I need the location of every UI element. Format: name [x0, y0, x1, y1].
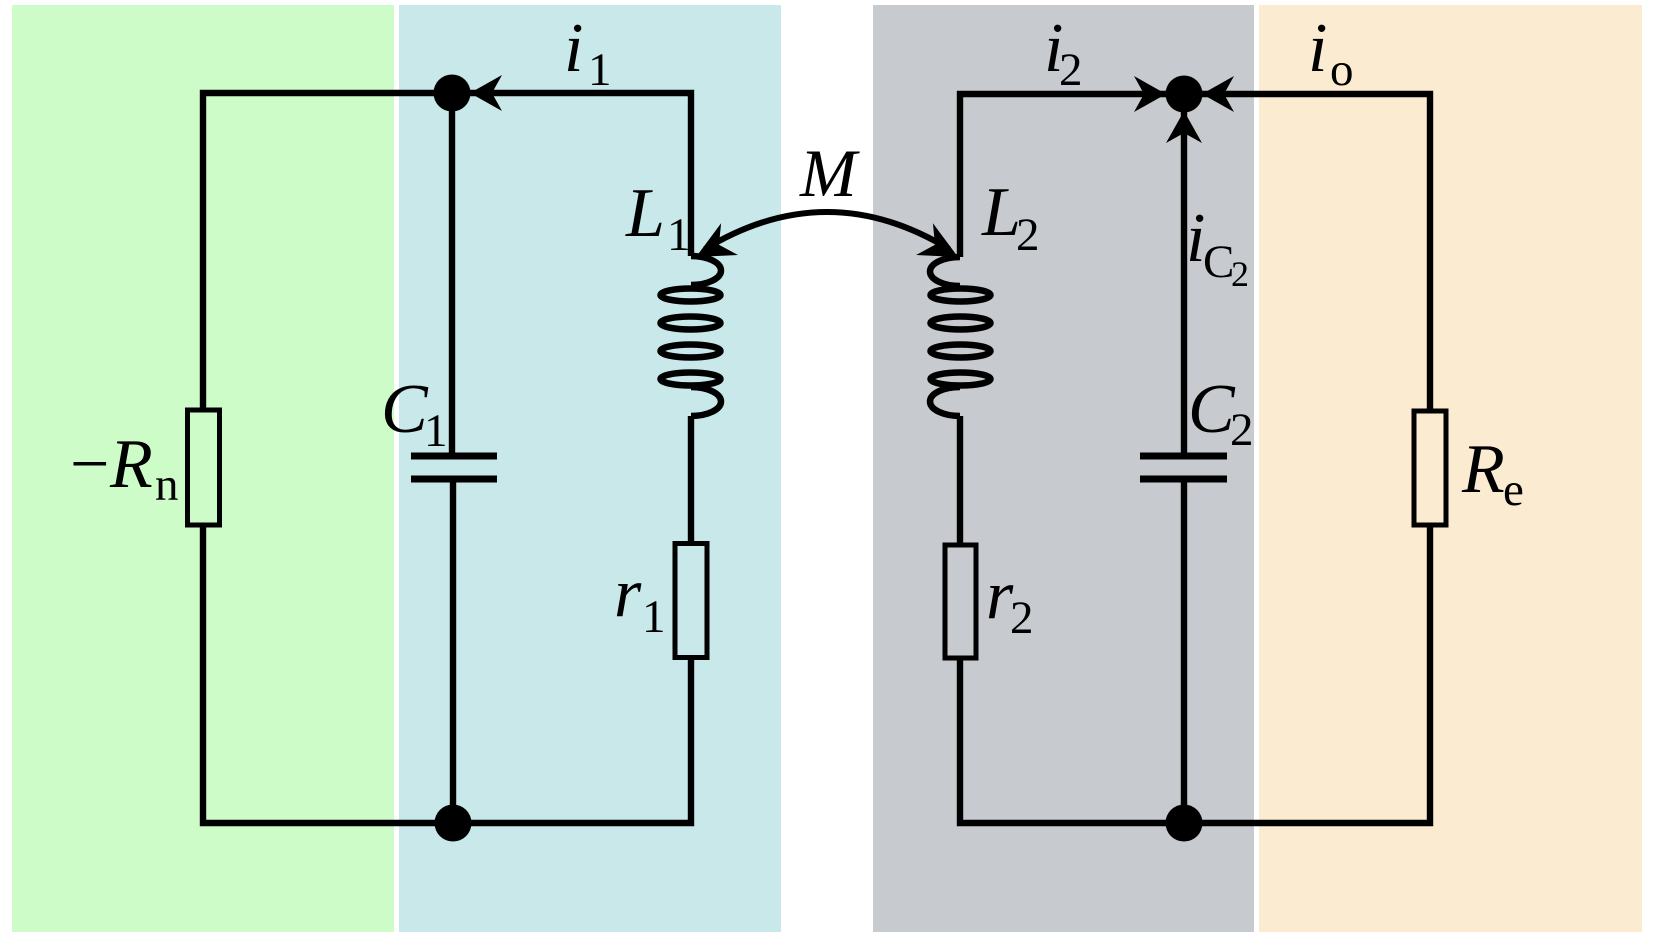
node dot circuit2 bottom — [1166, 805, 1203, 842]
wire: circuit 1 top + upper sides — [203, 93, 691, 410]
node dot circuit1 bottom — [435, 805, 472, 842]
arrow iC2 (points up into node) — [1166, 111, 1202, 143]
wire: C1 branch upper — [449, 93, 455, 453]
mutual coupling arc M — [705, 212, 949, 249]
capacitor C2 plates — [1140, 456, 1227, 479]
green band (negative resistance region) — [12, 5, 394, 932]
cyan band (primary resonator region) — [399, 5, 781, 932]
svg-text:2: 2 — [1059, 44, 1083, 96]
svg-text:C: C — [1203, 236, 1234, 288]
svg-text:C: C — [381, 371, 429, 448]
svg-text:C: C — [1188, 371, 1236, 448]
arrow io (points left into node) — [1202, 76, 1234, 112]
wire: C2 branch upper — [1181, 94, 1187, 453]
svg-text:o: o — [1330, 44, 1354, 96]
resistor r2 — [945, 545, 976, 658]
svg-text:r: r — [614, 555, 642, 632]
svg-text:2: 2 — [1231, 254, 1249, 294]
svg-text:2: 2 — [1016, 209, 1040, 261]
svg-text:−: − — [70, 426, 109, 503]
svg-text:1: 1 — [642, 591, 666, 643]
wire: circuit 1 bottom + lower sides — [203, 525, 691, 823]
inductor L2 coil — [930, 257, 991, 416]
svg-text:1: 1 — [667, 209, 691, 261]
M arc right arrowhead — [916, 223, 966, 273]
svg-text:n: n — [155, 459, 179, 511]
gray band (secondary resonator region) — [873, 5, 1254, 932]
resistor Re — [1414, 411, 1446, 525]
arrow i1 (points left into node) — [470, 75, 502, 111]
inductor L1 coil — [661, 256, 722, 416]
wire: circuit 2 bottom + lower sides — [960, 525, 1430, 823]
orange band (load region) — [1259, 5, 1642, 932]
wire: C1 branch lower — [450, 482, 456, 823]
svg-text:i: i — [564, 10, 583, 87]
svg-text:L: L — [625, 175, 665, 252]
M arc left arrowhead — [688, 223, 738, 273]
svg-text:e: e — [1503, 464, 1524, 516]
svg-text:L: L — [981, 174, 1021, 251]
wire: circuit 2 top + upper sides — [960, 94, 1430, 411]
svg-text:2: 2 — [1230, 404, 1254, 456]
svg-text:i: i — [1308, 10, 1327, 87]
node dot circuit2 top — [1166, 76, 1203, 113]
resistor r1 — [675, 544, 707, 658]
svg-text:R: R — [109, 426, 153, 503]
wire: C2 branch lower — [1181, 482, 1187, 823]
wire: L1 to r1 — [688, 416, 694, 543]
svg-text:1: 1 — [588, 44, 612, 96]
svg-text:R: R — [1461, 431, 1505, 508]
svg-text:2: 2 — [1010, 592, 1034, 644]
svg-text:1: 1 — [424, 405, 448, 457]
capacitor C1 plates — [411, 456, 497, 479]
svg-text:M: M — [799, 135, 860, 211]
wire: L2 to r2 — [957, 416, 963, 545]
arrow i2 (points right into node) — [1134, 76, 1166, 112]
node dot circuit1 top — [434, 75, 471, 112]
resistor -Rn — [188, 410, 220, 525]
